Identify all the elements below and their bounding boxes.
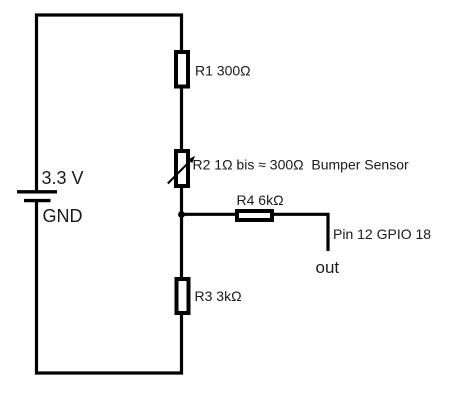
svg-text:R1 300Ω: R1 300Ω: [195, 63, 251, 79]
svg-text:3.3 V: 3.3 V: [42, 168, 84, 188]
resistor R1: [176, 52, 188, 87]
arrow of variable resistor R2: [168, 156, 195, 184]
wire: top horizontal + upper-left vertical down to battery: [37, 15, 182, 191]
svg-text:GND: GND: [43, 206, 83, 226]
svg-text:Pin 12 GPIO 18: Pin 12 GPIO 18: [333, 226, 431, 242]
wire: R2 through node down to R3: [180, 188, 183, 279]
node: junction dot: [178, 211, 185, 218]
battery V1 (3.3 V): [17, 192, 57, 201]
wire: lower-left vertical + bottom horizontal + riser to R3: [37, 202, 182, 374]
resistor R2 (variable): [176, 151, 188, 186]
svg-text:out: out: [316, 258, 340, 277]
wire: R1 to R2: [180, 87, 183, 152]
svg-text:R4 6kΩ: R4 6kΩ: [237, 192, 284, 208]
svg-text:R3 3kΩ: R3 3kΩ: [195, 288, 242, 304]
wire: node to R4 and R4 to output corner: [182, 214, 329, 251]
resistor R3: [177, 279, 189, 313]
svg-text:R2 1Ω bis ≈ 300Ω Bumper Senso: R2 1Ω bis ≈ 300Ω Bumper Sensor: [193, 157, 409, 173]
resistor R4: [237, 211, 272, 220]
